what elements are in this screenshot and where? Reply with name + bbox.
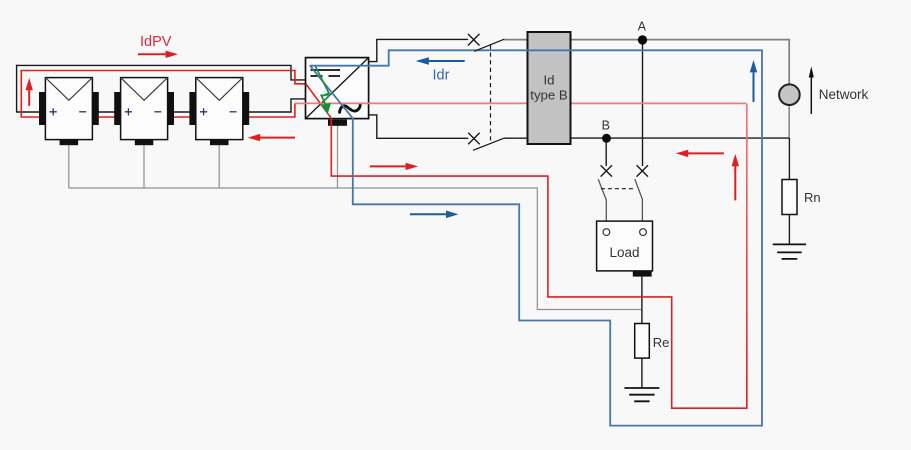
wire PV bottom string conductor [17, 65, 306, 112]
PV module P2 [114, 78, 174, 146]
wire red faulted conductor (salmon) [295, 102, 746, 104]
svg-text:Id: Id [544, 73, 555, 88]
wire node A down to breaker [642, 41, 644, 166]
inverter U1 box [306, 58, 369, 126]
svg-text:type B: type B [530, 88, 568, 103]
wire PV top string conductor [17, 65, 306, 80]
svg-text:Load: Load [609, 245, 639, 260]
ground below Rn [773, 244, 806, 259]
svg-text:A: A [638, 20, 647, 34]
arrow red left (toward node B) [688, 152, 724, 154]
wire junction to Rn [788, 138, 790, 179]
wire PE top from switch to network earth [504, 40, 789, 85]
arrow blue up (return path) [753, 72, 755, 102]
breaker link (dashed) [601, 188, 636, 190]
resistor Rn [782, 180, 797, 215]
svg-text:Re: Re [653, 335, 670, 350]
switch S1 contact X (AC line 1) [468, 34, 480, 46]
inverter terminal bar [328, 120, 347, 126]
PV module P3 [189, 78, 249, 146]
network source circle [779, 84, 800, 105]
arrow red up (return path) [734, 166, 736, 200]
resistor Re [635, 324, 650, 359]
PV module P1 [39, 78, 99, 146]
svg-text:Rn: Rn [804, 190, 821, 205]
breaker blade A [635, 179, 643, 228]
network arrow [810, 77, 812, 115]
wire switch to Id box line 2 [504, 137, 528, 139]
breaker contact X below node B [601, 165, 612, 176]
inverter AC symbol [340, 105, 361, 112]
wire inverter AC line 1 to switch [368, 39, 468, 61]
wire load to Re [641, 277, 643, 324]
wire Re to ground [641, 358, 643, 388]
switch mechanical link (dashed) [490, 45, 492, 143]
inverter DC symbol [311, 70, 341, 76]
switch S1 blade [474, 39, 504, 51]
arrow IdPV (red right) [138, 53, 167, 55]
svg-text:B: B [602, 119, 610, 133]
wire IdPV fault loop bottom (red) [21, 70, 295, 117]
wire Id box to network line 2 through node B [571, 137, 789, 139]
switch S2 blade [473, 138, 504, 150]
arrow blue right (mid Idr path) [410, 213, 446, 215]
arrow red right (mid fault path) [370, 165, 406, 167]
node B [602, 134, 611, 143]
svg-text:IdPV: IdPV [140, 34, 172, 50]
node A [638, 35, 647, 44]
ground below Re [624, 388, 659, 401]
wire network circle to junction [788, 105, 790, 138]
svg-text:Idr: Idr [433, 68, 450, 84]
wire PE ground bus from PV frames to earth of load [69, 125, 642, 309]
Load box [597, 221, 653, 277]
wire red fault path through inverter and earth return loop [306, 84, 747, 408]
arrow IdPV loop up (far left red) [28, 89, 30, 106]
arrow string return (red left) [260, 137, 295, 139]
arrow Idr (blue left) [429, 60, 465, 62]
switch S2 contact X (AC line 2) [468, 133, 480, 145]
breaker blade B [598, 179, 606, 228]
fault arrow (green) in inverter [316, 67, 331, 114]
svg-text:Network: Network [819, 87, 869, 102]
wire node B down to breaker [605, 139, 607, 166]
wire inverter AC line 2 to switch [368, 115, 468, 138]
wire Idr residual current loop (blue) [310, 50, 763, 425]
breaker contact X below node A [637, 165, 648, 176]
RCD Id type B box [528, 32, 571, 144]
wire red return rise (gradient) [746, 103, 748, 409]
wire IdPV fault loop top (red) [21, 71, 306, 84]
wire Rn to ground [788, 215, 790, 245]
